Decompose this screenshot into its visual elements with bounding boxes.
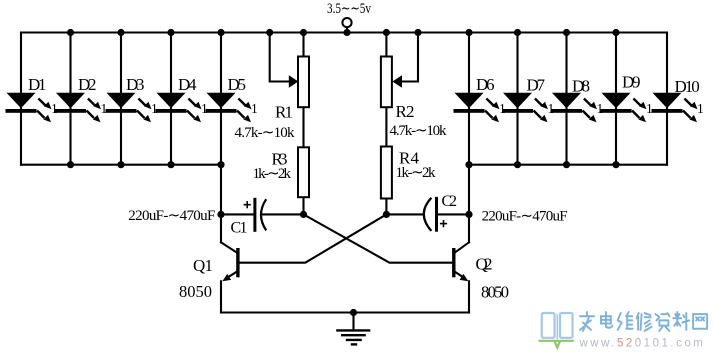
svg-text:8050: 8050	[179, 282, 212, 301]
svg-text:D7: D7	[527, 76, 546, 95]
svg-text:C1: C1	[231, 220, 248, 237]
svg-text:Q1: Q1	[193, 256, 213, 275]
svg-text:4.7k-∼10k: 4.7k-∼10k	[235, 125, 296, 141]
svg-text:D3: D3	[126, 75, 145, 94]
svg-text:D8: D8	[572, 77, 590, 96]
svg-text:8050: 8050	[481, 283, 509, 302]
svg-text:1k-∼2k: 1k-∼2k	[396, 165, 437, 181]
svg-text:C2: C2	[442, 193, 458, 210]
svg-text:D5: D5	[228, 75, 247, 94]
svg-text:4.7k-∼10k: 4.7k-∼10k	[390, 123, 448, 139]
svg-text:220uF-∼470uF: 220uF-∼470uF	[482, 209, 568, 225]
svg-text:1k-∼2k: 1k-∼2k	[253, 166, 292, 182]
svg-text:D6: D6	[476, 75, 495, 94]
svg-text:Q2: Q2	[476, 255, 493, 274]
svg-text:D10: D10	[675, 77, 700, 96]
svg-text:D9: D9	[622, 73, 641, 92]
svg-text:D2: D2	[78, 75, 97, 94]
svg-text:www.520101.com: www.520101.com	[579, 338, 706, 350]
svg-text:220uF-∼470uF: 220uF-∼470uF	[128, 208, 215, 224]
svg-text:R1: R1	[275, 103, 293, 122]
svg-text:D4: D4	[178, 75, 197, 94]
svg-text:R2: R2	[396, 102, 415, 121]
svg-text:3.5∼∼5v: 3.5∼∼5v	[327, 1, 372, 17]
svg-text:D1: D1	[28, 75, 47, 94]
